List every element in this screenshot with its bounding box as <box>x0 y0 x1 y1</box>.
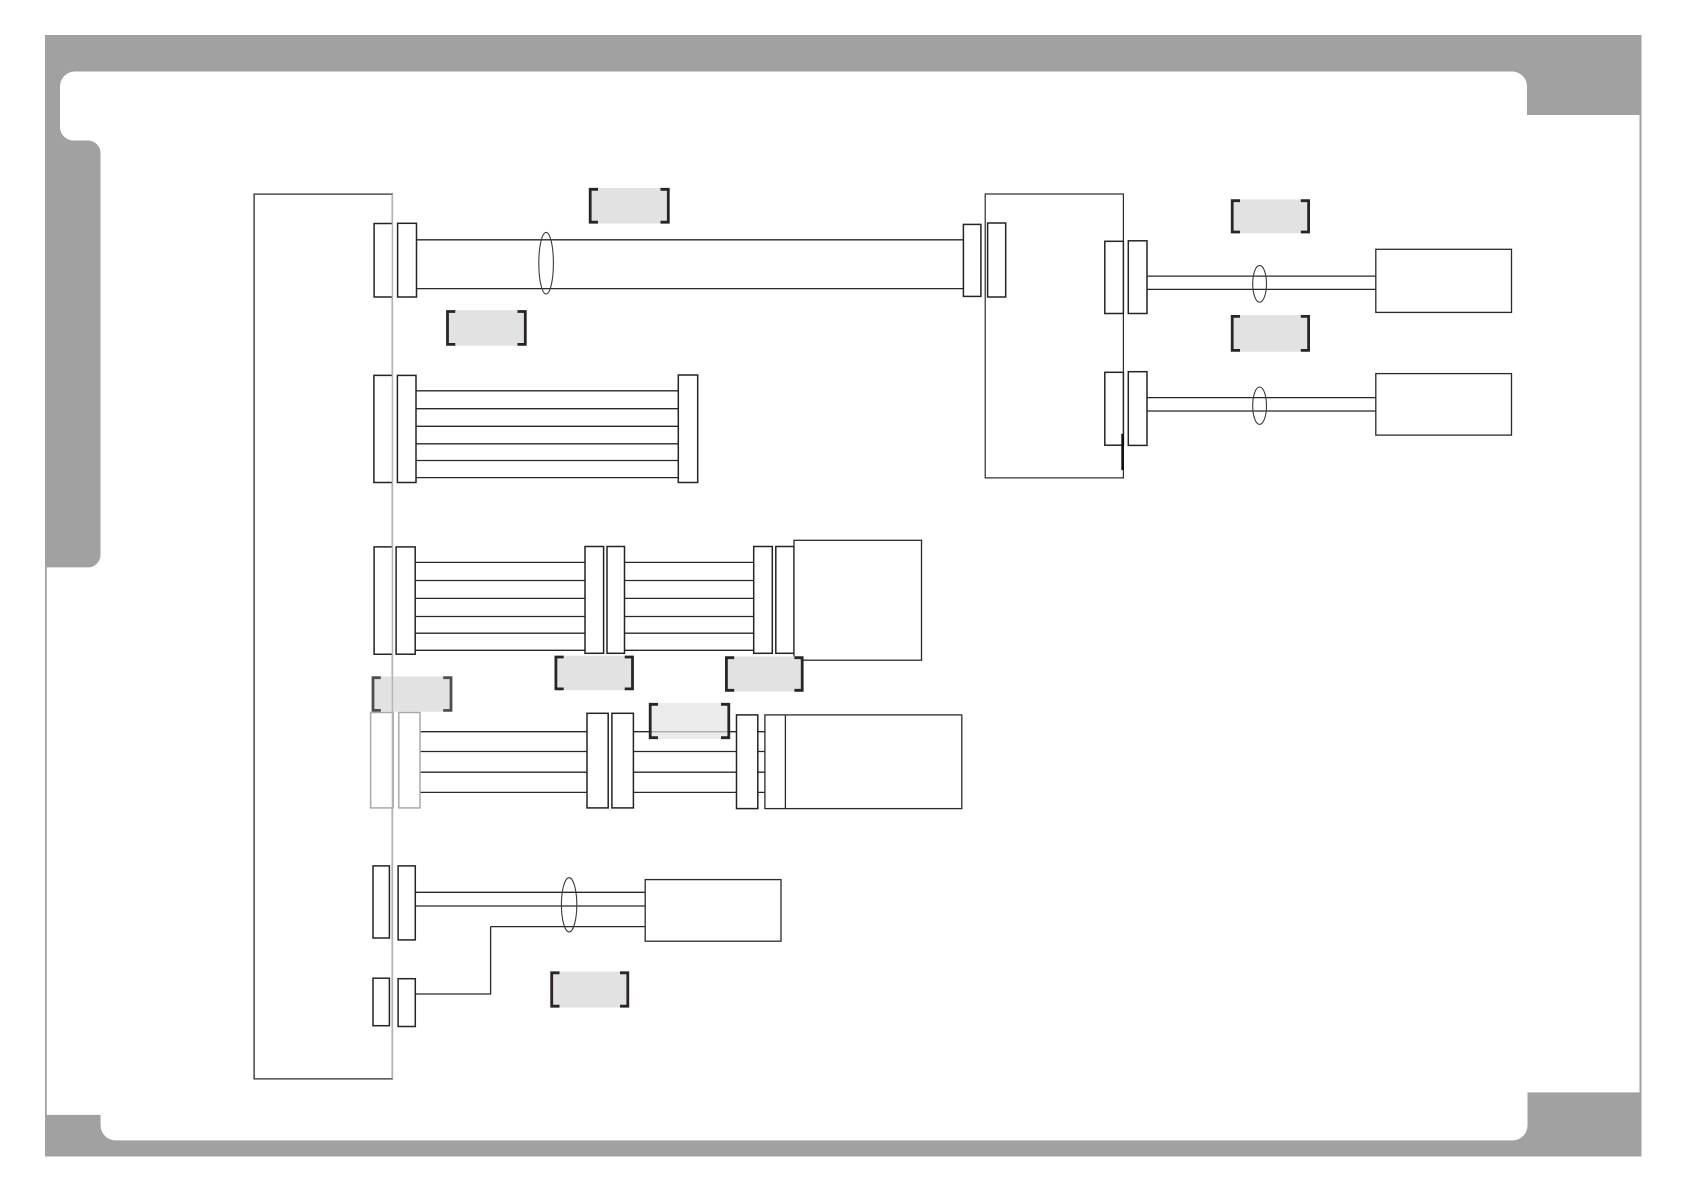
connector A2 <box>398 223 417 297</box>
board main (left PCB outline) <box>254 194 392 1079</box>
connector F3 <box>373 978 389 1025</box>
board main right edge gray line <box>391 194 393 1079</box>
ferrite bead ellipse row A <box>539 232 554 294</box>
connector E2 gray <box>399 713 420 808</box>
label L4 <box>1232 315 1308 352</box>
box row D <box>794 540 922 660</box>
connector C3 <box>1105 372 1124 445</box>
ferrite bead ellipse right bottom <box>1253 387 1267 424</box>
ferrite bead ellipse right top <box>1253 265 1267 302</box>
box row E connector divider <box>784 715 786 809</box>
connector B1 <box>963 224 981 296</box>
box right 2 <box>1376 374 1512 436</box>
connector D4 <box>607 547 625 654</box>
label L2 <box>448 310 526 346</box>
ribbon cable row D segment 2 (6 wires) <box>625 562 754 650</box>
connector A1 <box>374 224 392 298</box>
connector D1 <box>374 547 392 654</box>
connector F4 <box>398 979 415 1027</box>
connector RowC-2 <box>397 375 416 482</box>
label L3 <box>1232 199 1308 233</box>
label L8 <box>650 703 729 739</box>
label L1 <box>590 188 668 224</box>
wire bus row A bottom <box>417 288 964 290</box>
connector C4 <box>1128 372 1147 446</box>
connector F2 <box>398 866 415 940</box>
connector C1 <box>1105 241 1124 313</box>
connector D2 <box>396 547 415 654</box>
ribbon cable row D segment 1 (6 wires) <box>415 562 585 650</box>
connector D6 <box>776 547 794 654</box>
connector F1 <box>373 866 389 938</box>
connector RowC-1 <box>374 375 393 482</box>
box right 1 <box>1376 249 1512 312</box>
connector C2 <box>1128 241 1147 314</box>
label L6 <box>556 656 633 691</box>
connector E1 gray <box>371 713 394 808</box>
connector E4 <box>612 713 634 808</box>
label L9 <box>552 972 628 1008</box>
connector B2 <box>988 223 1006 297</box>
terminator RowC <box>678 375 697 483</box>
connector D5 <box>754 547 773 654</box>
label L5 gray <box>373 676 451 711</box>
wires row F <box>415 892 645 926</box>
connector D3 <box>585 547 604 654</box>
ribbon cable row C (6 wires) <box>416 391 678 478</box>
wire pair right bottom <box>1147 398 1376 411</box>
ferrite bead ellipse row F <box>561 878 576 932</box>
board right (sub PCB outline) <box>985 194 1123 478</box>
ribbon cable row E stubs <box>758 732 765 793</box>
box row F <box>645 880 781 942</box>
ribbon cable row E segment 1 (4 wires) <box>420 732 587 793</box>
wire pair right top <box>1147 276 1376 289</box>
antenna stub thick segment <box>1121 434 1124 470</box>
label L7 <box>726 656 802 691</box>
ribbon cable row E segment 2 (4 wires) <box>633 732 736 793</box>
wire row F L-shape <box>415 927 490 994</box>
connector E3 <box>587 713 608 808</box>
wire bus row A top <box>417 239 964 241</box>
connector E5 <box>737 715 758 809</box>
box row E <box>765 715 962 809</box>
